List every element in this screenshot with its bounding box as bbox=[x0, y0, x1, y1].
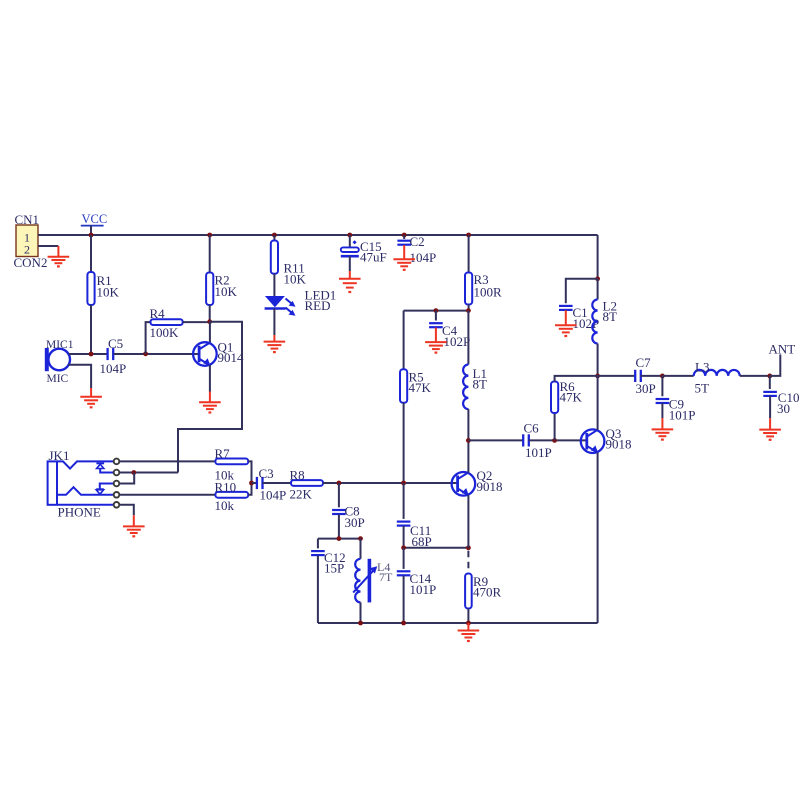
svg-text:R7: R7 bbox=[215, 446, 231, 461]
capacitor C14 bbox=[397, 570, 411, 572]
node VCC junction R2 bbox=[207, 233, 212, 238]
svg-text:104P: 104P bbox=[260, 488, 287, 503]
jack ring contact bbox=[57, 487, 113, 495]
svg-text:104P: 104P bbox=[100, 361, 127, 376]
wire C15 bottom lead bbox=[349, 256, 351, 271]
node junction L3/C10/ANT bbox=[767, 374, 772, 379]
wire L4 bottom lead bbox=[360, 602, 362, 623]
inductor L1 8T bbox=[463, 365, 468, 410]
node VCC junction R1 bbox=[89, 233, 94, 238]
wire C14 top lead bbox=[403, 548, 405, 569]
svg-text:30: 30 bbox=[777, 401, 790, 416]
wire R11 top lead bbox=[273, 235, 275, 241]
resistor R6 bbox=[551, 382, 558, 414]
wire C8 bottom lead bbox=[338, 514, 340, 538]
svg-text:MIC1: MIC1 bbox=[46, 339, 74, 351]
svg-text:100R: 100R bbox=[474, 285, 503, 300]
wire Q1 output to jack switch bbox=[178, 322, 242, 473]
wire C4 top lead bbox=[435, 311, 437, 321]
wire LED1 cathode lead bbox=[273, 309, 275, 336]
svg-text:10k: 10k bbox=[215, 498, 235, 513]
transistor Q1 9014 bbox=[193, 342, 217, 366]
node junction C1/L2 bbox=[595, 276, 600, 281]
jack switch arrow down bbox=[100, 484, 113, 490]
resistor R7 bbox=[215, 459, 248, 465]
svg-text:9014: 9014 bbox=[218, 350, 245, 365]
wire L2 top lead bbox=[597, 279, 599, 300]
wire C12 top lead bbox=[317, 539, 319, 549]
wire Q1 emitter lead bbox=[209, 365, 211, 391]
svg-text:100K: 100K bbox=[150, 325, 180, 340]
wire L1 bottom lead bbox=[467, 409, 469, 440]
node junction R1/MIC/C5 bbox=[89, 352, 94, 357]
wire C11 to Q2 emitter node bbox=[404, 547, 469, 549]
svg-text:101P: 101P bbox=[669, 408, 696, 423]
resistor R2 bbox=[206, 273, 213, 306]
wire C3 to R8 bbox=[262, 482, 291, 484]
capacitor C11 bbox=[397, 520, 411, 522]
wire R9 top lead dashed bbox=[467, 551, 469, 571]
wire R8 to Q2 base bbox=[323, 482, 458, 484]
node junction R2/R4/Q1 collector bbox=[207, 319, 212, 324]
wire jack pin1 to R7 bbox=[120, 460, 215, 462]
wire C1 branch bbox=[566, 279, 598, 303]
node VCC junction C2 bbox=[402, 233, 407, 238]
wire C7 to C9 node bbox=[641, 375, 663, 377]
wire CN1 pin2 to ground bbox=[38, 245, 58, 247]
jack JK1 body bbox=[48, 461, 57, 504]
wire tank top bbox=[318, 538, 361, 540]
ground GND under JK1 bbox=[133, 515, 135, 526]
svg-text:9018: 9018 bbox=[477, 479, 503, 494]
wire R7 right lead bbox=[248, 461, 251, 483]
inductor L4 7T adjustable bbox=[355, 559, 360, 603]
svg-text:8T: 8T bbox=[603, 309, 618, 324]
svg-text:RED: RED bbox=[305, 298, 331, 313]
svg-text:PHONE: PHONE bbox=[58, 505, 101, 520]
capacitor C8 bbox=[332, 509, 346, 511]
wire L4 top lead bbox=[360, 539, 362, 559]
resistor R4 bbox=[151, 319, 183, 325]
node junction R9/ground bbox=[466, 621, 471, 626]
resistor R1 bbox=[87, 272, 94, 305]
resistor R5 bbox=[400, 369, 407, 403]
svg-text:30P: 30P bbox=[345, 515, 365, 530]
wire C15 top lead bbox=[349, 235, 351, 247]
wire C3 left lead bbox=[252, 482, 258, 484]
wire jack pin5 to ground bbox=[120, 505, 134, 516]
svg-text:10K: 10K bbox=[97, 285, 120, 300]
wire R2 top lead bbox=[209, 235, 211, 273]
wire bottom rail bbox=[318, 622, 598, 624]
jack pin 4 bbox=[114, 492, 120, 498]
node VCC junction C15 bbox=[347, 233, 352, 238]
svg-text:C7: C7 bbox=[636, 355, 652, 370]
capacitor C10 bbox=[763, 391, 777, 393]
wire Q1 collector lead bbox=[209, 322, 211, 343]
node VCC junction R3 bbox=[466, 233, 471, 238]
svg-text:68P: 68P bbox=[412, 534, 432, 549]
ground GND under MIC1 bbox=[90, 388, 92, 397]
wire Q3 collector lead bbox=[597, 376, 599, 430]
svg-text:C3: C3 bbox=[259, 466, 274, 481]
svg-text:22K: 22K bbox=[290, 487, 313, 502]
node junction Q2 emitter/R9 bbox=[466, 545, 471, 550]
wire jack pin4 to R10 bbox=[120, 494, 215, 496]
capacitor C3 bbox=[256, 477, 258, 489]
wire C5 to Q1 base bbox=[114, 353, 200, 355]
wire jack pin2 to Q1 output bbox=[120, 472, 178, 474]
svg-text:R8: R8 bbox=[290, 468, 305, 483]
ground GND under C9 bbox=[661, 418, 663, 429]
svg-text:101P: 101P bbox=[410, 582, 437, 597]
ground GND under Q1 bbox=[209, 392, 211, 403]
wire MIC1 top terminal bbox=[69, 353, 109, 355]
svg-text:47K: 47K bbox=[560, 390, 583, 405]
wire L1 top lead bbox=[467, 311, 469, 365]
capacitor C4 bbox=[429, 322, 443, 324]
svg-text:15P: 15P bbox=[324, 561, 344, 576]
resistor R9 bbox=[465, 574, 472, 609]
connector CN1 (CON2) bbox=[16, 225, 38, 257]
svg-text:470R: 470R bbox=[473, 585, 502, 600]
wire R1 top lead bbox=[90, 235, 92, 272]
jack pin 3 bbox=[114, 481, 120, 487]
wire to L3 bbox=[662, 375, 693, 377]
node junction L4 bottom bbox=[358, 621, 363, 626]
wire node to C7 bbox=[598, 375, 636, 377]
wire R11 to LED1 bbox=[273, 274, 275, 296]
node junction L2/Q3 collector/C7 bbox=[595, 374, 600, 379]
svg-text:C2: C2 bbox=[410, 234, 425, 249]
svg-text:8T: 8T bbox=[473, 377, 488, 392]
wire C2 top lead bbox=[403, 235, 405, 239]
wire C11 top lead bbox=[403, 483, 405, 519]
wire R6 bottom lead bbox=[554, 413, 556, 440]
wire R3 bottom lead bbox=[468, 305, 470, 311]
svg-text:5T: 5T bbox=[695, 381, 710, 396]
svg-text:30P: 30P bbox=[636, 381, 656, 396]
svg-text:9018: 9018 bbox=[606, 437, 632, 452]
jack pin 2 bbox=[114, 470, 120, 476]
wire C9 top lead bbox=[661, 376, 663, 396]
ground GND under C1 bbox=[565, 310, 567, 325]
wire C8 top lead bbox=[338, 483, 340, 507]
wire C10 bottom lead bbox=[769, 396, 771, 418]
wire R9 bottom lead bbox=[467, 609, 469, 624]
jack tip contact bbox=[57, 461, 113, 468]
ground GND under C15 bbox=[349, 271, 351, 279]
svg-text:R10: R10 bbox=[215, 480, 237, 495]
capacitor C9 bbox=[656, 398, 670, 400]
svg-text:ANT: ANT bbox=[769, 342, 796, 357]
wire C9 bottom lead bbox=[661, 403, 663, 418]
svg-text:L3: L3 bbox=[695, 359, 709, 374]
node junction L1/Q2/C6 bbox=[466, 438, 471, 443]
svg-text:MIC: MIC bbox=[47, 373, 69, 385]
wire C14 bottom lead bbox=[403, 576, 405, 623]
svg-text:47K: 47K bbox=[409, 380, 432, 395]
node junction C11/C14 bbox=[401, 545, 406, 550]
wire antenna stub bbox=[770, 355, 781, 376]
wire R2 bottom lead bbox=[209, 305, 211, 322]
svg-text:CN1: CN1 bbox=[15, 212, 40, 227]
wire R3 top lead bbox=[468, 235, 470, 273]
inductor L3 5T bbox=[694, 370, 740, 376]
svg-text:104P: 104P bbox=[410, 250, 437, 265]
svg-text:102P: 102P bbox=[444, 334, 471, 349]
wire jack pin3 link bbox=[120, 473, 134, 484]
svg-text:CON2: CON2 bbox=[14, 255, 48, 270]
wire MIC1 bottom terminal bbox=[68, 365, 91, 388]
node junction R7/R10/C3 bbox=[249, 481, 254, 486]
node junction C14 bottom bbox=[401, 621, 406, 626]
capacitor C6 bbox=[522, 434, 524, 446]
resistor R8 bbox=[291, 480, 323, 486]
svg-text:C5: C5 bbox=[108, 336, 123, 351]
wire R4 left lead bbox=[146, 322, 151, 354]
wire C6 left lead bbox=[468, 439, 523, 441]
wire R10 right lead bbox=[248, 483, 251, 495]
svg-text:7T: 7T bbox=[379, 570, 393, 584]
svg-text:10K: 10K bbox=[284, 272, 307, 287]
wire C6 to Q3 base bbox=[529, 439, 587, 441]
node VCC junction R11 bbox=[272, 233, 277, 238]
ground GND under C2 bbox=[403, 245, 405, 259]
wire R5 top lead bbox=[403, 311, 405, 370]
inductor L2 8T bbox=[592, 300, 597, 344]
resistor R10 bbox=[215, 492, 248, 498]
node junction C8 bbox=[337, 481, 342, 486]
resistor R3 bbox=[465, 273, 472, 305]
wire R1 bottom lead bbox=[90, 305, 92, 354]
capacitor C5 bbox=[106, 348, 108, 360]
wire VCC rail bbox=[38, 234, 598, 236]
microphone MIC1 bbox=[48, 349, 70, 371]
capacitor C15 47uF electrolytic bbox=[341, 247, 359, 252]
ground GND bottom rail bbox=[467, 623, 469, 631]
jack sleeve wire bbox=[57, 504, 113, 506]
node junction R3/L1 bbox=[466, 308, 471, 313]
wire C12 bottom lead bbox=[317, 556, 319, 624]
jack pin 1 bbox=[114, 459, 120, 465]
wire Q3 emitter lead bbox=[597, 453, 599, 623]
wire VCC rail drop to L2 bbox=[597, 235, 599, 279]
wire C11 bottom lead bbox=[403, 526, 405, 548]
jack switch arrow up bbox=[96, 462, 104, 464]
svg-text:47uF: 47uF bbox=[360, 249, 387, 264]
wire R4 right lead bbox=[183, 321, 210, 323]
wire R5 bottom lead bbox=[403, 403, 405, 483]
wire Q2 collector lead bbox=[467, 440, 469, 472]
wire L2 bottom lead bbox=[597, 344, 599, 376]
node junction L4 top bbox=[358, 536, 363, 541]
wire mid node R5-C4-R3 bbox=[404, 310, 469, 312]
capacitor C7 bbox=[634, 370, 636, 382]
ground GND under CN1 pin2 bbox=[57, 246, 59, 257]
capacitor C1 bbox=[559, 305, 573, 307]
wire R6 top lead bbox=[555, 376, 598, 382]
node junction C7/C9/L3 bbox=[660, 374, 665, 379]
node junction C6/R6/Q3 bbox=[552, 438, 557, 443]
node junction C4 bbox=[434, 308, 439, 313]
node junction C5/R4/Q1 bbox=[143, 351, 148, 356]
node junction R5/C11 bbox=[401, 481, 406, 486]
ground GND under C4 bbox=[435, 328, 437, 343]
wire L3 to antenna node bbox=[740, 375, 770, 377]
wire Q2 emitter lead bbox=[467, 495, 469, 548]
ground GND under C10 bbox=[769, 418, 771, 429]
wire C10 top lead bbox=[769, 376, 771, 389]
LED LED1 RED bbox=[265, 296, 285, 307]
svg-text:10K: 10K bbox=[215, 284, 238, 299]
transistor Q2 9018 bbox=[452, 472, 476, 496]
node junction C8/tank bbox=[337, 536, 342, 541]
node junction pin2/pin3 bbox=[131, 470, 136, 475]
resistor R11 bbox=[271, 241, 278, 274]
svg-text:C6: C6 bbox=[524, 421, 540, 436]
svg-text:R4: R4 bbox=[150, 306, 166, 321]
transistor Q3 9018 bbox=[581, 429, 605, 453]
capacitor C12 bbox=[311, 550, 325, 552]
ground GND under LED1 bbox=[273, 335, 275, 342]
svg-text:101P: 101P bbox=[525, 445, 552, 460]
capacitor C2 bbox=[397, 240, 411, 242]
svg-text:VCC: VCC bbox=[82, 212, 108, 226]
jack pin 5 bbox=[114, 502, 120, 508]
